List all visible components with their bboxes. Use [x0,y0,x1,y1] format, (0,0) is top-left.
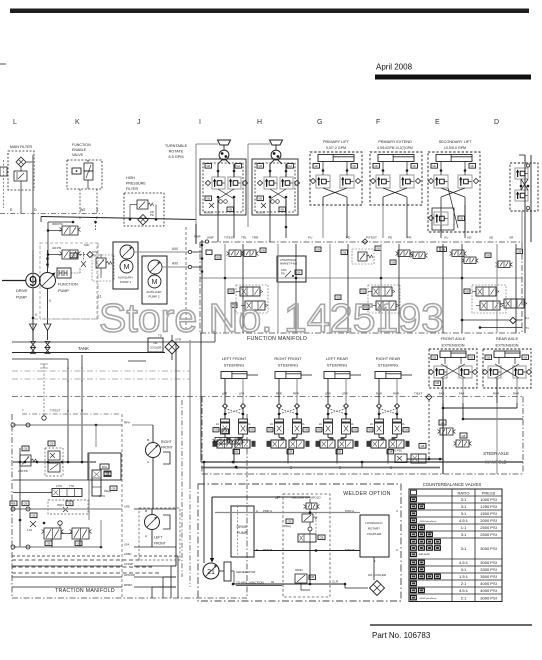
svg-text:GB: GB [72,254,76,258]
svg-text:5.0%: 5.0% [99,494,106,498]
svg-text:GENERATOR: GENERATOR [236,570,256,574]
svg-text:AUXILIARY: AUXILIARY [146,290,162,294]
svg-text:21: 21 [207,569,215,576]
svg-text:OIL: OIL [153,341,158,345]
svg-text:M: M [152,279,158,286]
svg-text:I: I [199,119,201,126]
svg-text:GB: GB [24,447,28,451]
svg-text:TRR: TRR [252,236,259,240]
svg-text:PU: PU [308,236,312,240]
svg-text:1000 PSI: 1000 PSI [480,497,496,502]
svg-text:PD: PD [346,236,351,240]
tank return trunk (gray) [32,155,34,341]
svg-text:RAR: RAR [493,392,499,396]
svg-text:GB: GB [258,164,262,168]
svg-text:FRONT: FRONT [154,542,166,546]
svg-text:FUNCTION: FUNCTION [58,283,78,287]
svg-text:GB: GB [317,428,321,432]
traction percent stack [92,470,101,496]
svg-text:STEER AXLE: STEER AXLE [483,451,509,456]
svg-text:4.5:1: 4.5:1 [459,518,469,523]
platform rotate valve cluster D [510,163,538,211]
svg-text:XD: XD [467,236,472,240]
aux pump 1 [113,242,138,289]
svg-text:(350 PSI): (350 PSI) [391,449,402,453]
svg-text:GB: GB [216,255,220,259]
svg-text:AMP: AMP [207,236,214,240]
svg-text:PRIMARY EXTEND: PRIMARY EXTEND [378,140,412,144]
svg-text:RAR: RAR [376,392,382,396]
svg-text:45.0 GR: 45.0 GR [256,212,265,215]
tank entry triangles [30,324,37,331]
svg-text:GB: GB [288,450,292,454]
svg-text:GB: GB [432,355,436,359]
svg-text:RIGHT FRONT: RIGHT FRONT [274,356,302,361]
svg-text:3000 PSI: 3000 PSI [480,546,496,551]
riser from steering to welder [203,462,205,563]
svg-text:1250 PSI: 1250 PSI [480,504,496,509]
port test diamond [362,239,367,244]
welder manifold valves [306,503,317,509]
svg-text:COUPLER: COUPLER [367,532,382,536]
svg-text:77%: 77% [69,484,75,488]
svg-text:GB: GB [297,270,301,274]
svg-text:B: B [256,548,258,552]
svg-text:GB: GB [469,355,473,359]
svg-text:3:1: 3:1 [461,567,467,572]
oil cooler upper [148,338,163,352]
svg-text:LF2SP: LF2SP [124,562,133,566]
svg-text:A5PE1: A5PE1 [295,569,303,572]
svg-text:FAR: FAR [459,392,464,396]
svg-text:GB: GB [228,207,232,211]
manifold vertical wires to steering [224,244,226,333]
drive pump box [231,506,254,557]
svg-text:STEERING: STEERING [378,363,398,368]
traction block right [88,453,121,480]
svg-text:4500 PSI: 4500 PSI [52,222,63,226]
svg-text:LFA: LFA [124,543,129,547]
svg-text:RPRK: RPRK [124,583,132,587]
svg-text:EXTENSION: EXTENSION [441,343,464,348]
manifold second row valves [240,287,260,296]
svg-text:GB: GB [223,429,227,433]
svg-text:GB: GB [337,450,341,454]
svg-text:GF: GF [470,164,474,168]
welder manifold box [283,494,330,597]
svg-text:PRESSURE: PRESSURE [126,182,146,186]
svg-text:GB: GB [391,260,395,264]
welder option border [198,484,401,601]
svg-text:WELDER OPTION: WELDER OPTION [343,491,390,497]
svg-text:01: 01 [275,496,279,500]
manifold right exit wires [462,319,510,321]
svg-text:B: B [145,509,147,513]
svg-text:GB: GB [258,196,262,200]
svg-text:M: M [124,264,130,271]
svg-text:J: J [137,119,141,126]
svg-text:RIGHT REAR: RIGHT REAR [376,356,401,361]
enable valve port wires 1 2 [79,189,81,213]
svg-text:ENABLE: ENABLE [72,148,87,152]
svg-text:10.5/5.0 GPM: 10.5/5.0 GPM [444,146,466,150]
svg-text:GB: GB [47,541,51,545]
svg-text:6.5 GPM: 6.5 GPM [169,155,184,159]
svg-text:LRR: LRR [325,392,331,396]
bottom-left dash rails [12,559,140,561]
svg-text:2500 PSI: 2500 PSI [480,525,496,530]
svg-text:HIGH: HIGH [126,176,135,180]
svg-text:2500 PSI: 2500 PSI [18,470,28,473]
manifold internal bus [200,277,522,279]
traction solenoid pair [58,521,62,525]
svg-text:GB: GB [462,434,466,438]
svg-text:GB: GB [112,486,116,490]
svg-text:PRESS: PRESS [482,491,496,496]
svg-text:April 2008: April 2008 [376,63,413,72]
svg-text:(WithOptionNote): (WithOptionNote) [420,597,437,600]
svg-text:GB: GB [486,355,490,359]
svg-text:XTR: XTR [175,338,182,342]
svg-text:SHC: SHC [84,243,90,247]
main pressure line [41,217,196,220]
svg-text:GB: GB [250,428,254,432]
svg-text:3:1: 3:1 [461,511,467,516]
gray riser lines [189,340,191,484]
svg-text:DRIVE: DRIVE [237,525,249,529]
svg-text:GF: GF [374,164,378,168]
right front wheel motor [146,443,161,458]
svg-text:APS/UP: APS/UP [124,573,135,577]
svg-text:GB: GB [316,247,320,251]
svg-text:9.0/7.2 GPM: 9.0/7.2 GPM [326,146,346,150]
svg-text:GB: GB [234,450,238,454]
svg-text:GA: GA [236,164,240,168]
svg-text:RFA: RFA [124,421,130,425]
svg-text:AX0: AX0 [172,247,178,251]
svg-text:LFR: LFR [222,392,227,396]
svg-text:T/TEST: T/TEST [224,236,235,240]
svg-text:2A: 2A [302,423,305,426]
svg-text:GB: GB [229,289,233,293]
svg-text:GB: GB [376,246,380,250]
svg-text:2:1: 2:1 [461,595,467,600]
crossover wires [270,189,286,199]
svg-text:ROTARY: ROTARY [368,527,380,531]
svg-text:400 PSI: 400 PSI [52,246,62,250]
svg-text:3:1: 3:1 [461,504,467,509]
svg-text:2A: 2A [370,423,373,426]
traction long rails with labels [12,555,122,557]
traction gray rail RFA [13,424,122,426]
svg-text:3000 PSI: 3000 PSI [480,560,496,565]
svg-text:4000 PSI: 4000 PSI [480,581,496,586]
svg-text:A: A [145,534,147,538]
svg-text:45.0 GR: 45.0 GR [204,212,213,215]
svg-text:GB: GB [404,428,408,432]
hydraulic rotary coupler [360,515,389,557]
svg-text:GB: GB [12,501,16,505]
svg-text:GB: GB [268,428,272,432]
svg-text:2A: 2A [351,423,354,426]
svg-text:PUMP: PUMP [16,296,27,300]
traction manifold border [11,414,13,598]
svg-text:(WithOptionNote): (WithOptionNote) [420,520,437,523]
steer manifold lower valves [215,438,227,445]
svg-text:RAR: RAR [393,392,399,396]
svg-text:HYDRAULIC: HYDRAULIC [365,521,383,525]
svg-text:STEERING: STEERING [278,363,298,368]
pump outlet wires [47,250,49,273]
traction bus y462 [13,461,96,463]
svg-text:PSI: PSI [281,273,285,276]
turntable rotate block 1 [200,159,246,215]
svg-text:Part No. 106783: Part No. 106783 [372,631,431,640]
svg-text:45%4: 45%4 [57,503,64,507]
svg-text:XR: XR [509,236,514,240]
svg-text:(with weld): (with weld) [419,553,430,556]
svg-text:GB: GB [441,421,445,425]
function manifold border [200,241,522,243]
svg-text:OIL COOLER: OIL COOLER [368,573,387,577]
svg-text:2A: 2A [319,423,322,426]
svg-text:TURNTABLE: TURNTABLE [165,144,188,148]
svg-text:2A: 2A [248,423,251,426]
svg-text:LEFT FRONT: LEFT FRONT [222,356,247,361]
svg-text:2A: 2A [402,423,405,426]
svg-text:GB: GB [280,207,284,211]
svg-text:STEERING: STEERING [327,363,347,368]
svg-text:PUMP: PUMP [58,289,69,293]
traction rail LFB [13,508,122,510]
svg-text:COOLER: COOLER [150,346,162,350]
svg-text:GB: GB [304,428,308,432]
svg-text:GA: GA [288,164,292,168]
svg-text:REAR AXLE: REAR AXLE [496,336,519,341]
generator coupler [224,562,231,581]
svg-text:4.5:1: 4.5:1 [459,560,469,565]
svg-text:D: D [494,119,499,126]
svg-text:2A: 2A [216,423,219,426]
svg-text:SECONDARY LIFT: SECONDARY LIFT [439,140,472,144]
svg-text:GF: GF [432,164,436,168]
svg-text:FRONT AXLE: FRONT AXLE [441,336,466,341]
svg-text:STEERING: STEERING [224,363,244,368]
crossover wires [218,189,234,199]
svg-text:T/TEST: T/TEST [50,409,61,413]
svg-text:GB: GB [459,216,463,220]
function pump P2 [40,273,56,289]
svg-text:LFBK: LFBK [124,552,132,556]
svg-text:GB: GB [50,442,54,446]
svg-text:1500 PSI: 1500 PSI [480,511,496,516]
svg-text:E: E [435,119,440,126]
turntable rotate block 2 [252,159,298,215]
svg-text:F: F [376,119,380,126]
svg-text:2.0%: 2.0% [56,484,63,488]
svg-text:GF: GF [314,164,318,168]
pump control valve [57,268,71,278]
svg-text:50%: 50% [102,465,108,469]
pump-motor loop wires [215,512,360,514]
svg-text:4000 PSI: 4000 PSI [480,588,496,593]
svg-text:GB: GB [353,428,357,432]
svg-text:G: G [317,119,322,126]
svg-text:GB: GB [106,472,110,476]
svg-text:EXTENSION: EXTENSION [495,343,518,348]
top header bar [10,9,529,14]
svg-text:6.9/5.0GPM 13.2(?)GPM: 6.9/5.0GPM 13.2(?)GPM [377,146,413,150]
svg-text:PRIMARY LIFT: PRIMARY LIFT [323,140,350,144]
dash-dot boundary at y213 [0,213,103,215]
wire filter to tank trunk [20,190,22,214]
svg-text:L: L [13,119,17,126]
svg-text:T/EXT: T/EXT [414,392,423,396]
svg-text:GB: GB [261,248,265,252]
secondary lift port wires [440,232,442,238]
svg-text:RIGHT: RIGHT [161,440,172,444]
tank bus lines [12,352,165,354]
svg-text:GB: GB [361,289,365,293]
svg-text:COUNTERBALANCE VALVES: COUNTERBALANCE VALVES [423,482,482,487]
svg-text:PR: PR [407,236,412,240]
svg-text:A: A [67,409,69,413]
svg-text:GB: GB [206,164,210,168]
svg-text:D: D [34,208,37,212]
aux pump wires AX0 [134,251,188,253]
svg-text:4.5:1: 4.5:1 [459,588,469,593]
svg-text:FILTER: FILTER [126,187,139,191]
svg-text:GB: GB [68,501,72,505]
svg-text:LEFT REAR: LEFT REAR [326,356,348,361]
traction rail LFA [13,546,101,548]
svg-text:GB: GB [435,381,439,385]
svg-text:K: K [75,119,80,126]
svg-text:GB: GB [517,249,521,253]
svg-text:GB: GB [320,535,324,539]
svg-text:MTR B: MTR B [345,548,354,552]
svg-text:LFB: LFB [124,505,130,509]
svg-text:45deg: 45deg [104,490,111,493]
svg-text:PE: PE [388,236,392,240]
welder bottom bus [233,583,345,585]
svg-text:VALVE: VALVE [72,153,84,157]
svg-text:2A: 2A [270,423,273,426]
svg-text:GB: GB [32,513,36,517]
svg-text:1:1: 1:1 [461,525,467,530]
svg-text:3:1: 3:1 [461,497,467,502]
svg-text:AX0: AX0 [172,262,178,266]
svg-text:RFR: RFR [276,392,282,396]
svg-text:1: 1 [79,216,81,220]
svg-text:2:1: 2:1 [461,581,467,586]
svg-text:MAIN FILTER: MAIN FILTER [10,145,33,149]
svg-text:TRL: TRL [241,236,247,240]
svg-text:4-0A: 4-0A [27,529,32,532]
svg-text:1.5:1: 1.5:1 [459,574,469,579]
primary extend port wires [382,205,384,238]
svg-text:GB: GB [465,289,469,293]
svg-text:P/TEST: P/TEST [366,236,377,240]
svg-text:3:1: 3:1 [461,546,467,551]
tank isolation valves [31,342,36,348]
svg-text:PMP: PMP [194,235,201,239]
svg-text:RAR: RAR [513,392,519,396]
svg-text:A: A [147,460,149,464]
primary lift port wires [322,205,324,238]
turntable supply wires [196,143,218,145]
header rule under date [375,75,531,80]
manifold top row valves [229,250,241,257]
svg-text:GB: GB [206,196,210,200]
inter-manifold dash-dot rails [12,370,190,372]
svg-text:GB: GB [486,253,490,257]
svg-text:Store No. 1425193: Store No. 1425193 [99,297,444,341]
svg-text:FAR: FAR [439,392,444,396]
svg-text:02: 02 [271,580,275,584]
svg-text:B: B [87,159,89,163]
svg-text:XE: XE [489,236,493,240]
svg-text:F1: F1 [526,316,530,320]
traction interior verticals [51,539,53,547]
traction cluster upper [22,446,29,451]
svg-text:45deg: 45deg [284,525,291,528]
svg-text:LFR: LFR [239,392,244,396]
svg-text:3:1: 3:1 [461,532,467,537]
aux pump 2 [142,256,167,304]
svg-text:GB: GB [342,250,346,254]
svg-text:LEFT: LEFT [154,536,162,540]
steering bus lines [201,461,523,463]
right trunk wires [524,155,526,333]
svg-text:RATIO: RATIO [458,491,470,496]
left front wheel motor [139,508,180,560]
generator 21 circle [203,563,219,579]
svg-text:TANK: TANK [78,346,89,351]
svg-text:FRONT: FRONT [161,446,173,450]
svg-text:ROTATE: ROTATE [169,150,184,154]
svg-text:TRACTION MANIFOLD: TRACTION MANIFOLD [55,588,115,594]
svg-text:W2: W2 [80,208,85,212]
attention note box [277,256,306,282]
svg-text:GB: GB [421,444,425,448]
svg-text:DRIVE: DRIVE [16,289,28,293]
svg-text:3500 PSI: 3500 PSI [480,574,496,579]
svg-text:GB: GB [214,428,218,432]
drive pump P1 (circle 9) [2,280,26,282]
check valve X1 [95,222,97,230]
svg-text:PSI: PSI [150,214,154,217]
svg-text:GF: GF [352,164,356,168]
L1 boundary dash [33,318,98,320]
svg-text:GB: GB [24,501,28,505]
svg-text:XU: XU [444,236,448,240]
svg-text:H: H [257,119,262,126]
left edge port marks [0,167,7,176]
pump group enclosure [40,243,97,319]
svg-text:AUXILIARY: AUXILIARY [118,276,134,280]
svg-text:B: B [147,438,149,442]
traction rail corner drops [177,556,179,598]
footer rule [370,624,532,626]
svg-text:PMP B: PMP B [263,548,272,552]
svg-text:RFR: RFR [293,392,299,396]
svg-text:T1: T1 [526,326,530,330]
svg-text:2000 PSI: 2000 PSI [480,518,496,523]
svg-text:GB: GB [368,428,372,432]
svg-text:GB: GB [288,519,292,523]
svg-text:LRR: LRR [342,392,348,396]
